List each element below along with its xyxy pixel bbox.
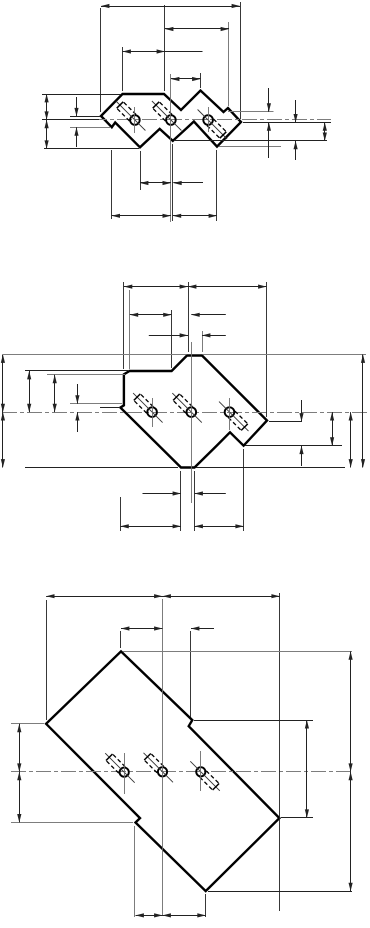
- extension line L left fig3: [11, 723, 44, 725]
- extension line R up fig2: [266, 282, 268, 417]
- extension line bottom tip right fig2: [196, 467, 345, 469]
- extension line tip left fig1: [70, 116, 100, 118]
- hole 3 vertical center line fig3: [200, 751, 202, 791]
- extension line B right fig3: [208, 891, 352, 893]
- extension line flatR down fig2: [194, 471, 196, 531]
- hole 2 fig3: [144, 753, 174, 783]
- hole 2 vertical center line fig2: [191, 342, 193, 503]
- dimension bottom left fig3: [136, 913, 163, 917]
- extension line V down fig2: [243, 449, 245, 531]
- extension line J1a up fig3: [190, 631, 192, 717]
- extension line edge371 left fig2: [25, 370, 128, 372]
- dimension hole2-to-peak fig1: [171, 77, 201, 81]
- extension line diagstart up fig2: [171, 310, 173, 368]
- extension line K right fig1: [175, 140, 327, 142]
- dimension top row1 left fig3: [46, 594, 162, 598]
- dimension top row2 right fig3: [191, 626, 214, 630]
- dimension right col2 upper fig3: [349, 651, 353, 771]
- dimension left lower fig1: [45, 120, 49, 149]
- hole 3 vertical center line fig1: [208, 107, 210, 132]
- dimension bottom left fig2: [120, 524, 181, 528]
- dimension bottom right fig3: [163, 913, 206, 917]
- hole 1 vertical center line fig2: [152, 398, 154, 427]
- dimension bottom right fig2: [195, 524, 244, 528]
- dimension left upper fig1: [45, 94, 49, 120]
- dimension right col4 fig2: [361, 355, 365, 468]
- dimension left col4 fig2: [75, 384, 79, 432]
- extension line R right fig2: [269, 421, 302, 423]
- extension line jog left fig2: [100, 407, 120, 409]
- dimension left col upper fig3: [17, 724, 21, 772]
- dimension top row1 left fig2: [124, 285, 188, 289]
- hole 3 fig3: [190, 761, 220, 791]
- hole 1 vertical center line fig1: [134, 107, 136, 133]
- extension line B up fig1: [122, 47, 124, 91]
- hole 1 fig3: [105, 753, 135, 783]
- extension line flatL down fig2: [180, 471, 182, 531]
- extension line plateau left fig2: [3, 354, 186, 356]
- dimension top row1 right fig3: [163, 594, 280, 598]
- dimension left col lower fig3: [17, 772, 21, 823]
- extension line R up fig3: [279, 593, 281, 911]
- dimension left col1 lower fig2: [1, 412, 5, 467]
- extension line A up fig1: [100, 8, 102, 112]
- hole 3 vertical center line fig2: [229, 398, 231, 430]
- dimension right col2 fig2: [330, 412, 334, 446]
- dimension left col3 fig2: [53, 375, 57, 412]
- hole 2 fig2: [172, 393, 202, 423]
- extension line hole2 vertical fig1: [170, 74, 172, 222]
- extension line plateau right fig2: [203, 354, 366, 356]
- extension line J2b left fig3: [11, 822, 133, 824]
- extension line I right fig1: [219, 146, 281, 148]
- dimension right A fig1: [267, 88, 271, 158]
- hole 1 fig2: [133, 393, 163, 423]
- plate outline fig2: [120, 356, 267, 468]
- hole center line fig2: [2, 412, 369, 414]
- extension line apex up fig3: [120, 631, 122, 648]
- dimension flat small fig2: [143, 491, 226, 495]
- hole 1 fig1: [116, 101, 145, 131]
- extension line apex right fig3: [123, 651, 352, 653]
- extension line J1a right fig3: [194, 720, 313, 722]
- hole 1 vertical center line fig3: [124, 753, 126, 794]
- plate outline fig1: [101, 91, 241, 148]
- extension line chamfer left fig2: [47, 374, 125, 376]
- extension line O down fig1: [111, 150, 113, 219]
- dimension top row2b fig2: [191, 313, 226, 317]
- dimension K small fig1: [173, 181, 203, 185]
- extension line bottomleft down fig2: [120, 497, 122, 531]
- extension line F right fig1: [228, 111, 274, 113]
- extension line M down fig1: [140, 151, 142, 190]
- dimension bottom left fig1: [112, 214, 171, 218]
- dimension M-hole2 fig1: [140, 181, 171, 185]
- dimension right col2 lower fig3: [349, 772, 353, 891]
- dimension plateau fig1: [123, 49, 203, 53]
- dimension hole2-to-G fig1: [165, 27, 229, 31]
- dimension right col1 fig2: [299, 400, 303, 466]
- dimension tip thickness fig1: [74, 97, 78, 147]
- dimension top row2 left fig3: [121, 626, 163, 630]
- dimension bottom right fig1: [173, 214, 217, 218]
- dimension right col1 fig3: [305, 720, 309, 818]
- extension line plateau-right up fig2: [202, 331, 204, 352]
- extension line H right fig1: [243, 122, 331, 124]
- dimension left col1 upper fig2: [1, 355, 5, 413]
- dimension plateau fig2: [149, 333, 226, 337]
- center line solid left segment fig1: [42, 119, 99, 121]
- extension line B down fig3: [205, 894, 207, 917]
- extension line corner2 up fig2: [129, 290, 131, 369]
- extension line L up fig3: [46, 600, 48, 720]
- extension line C up fig1: [164, 5, 166, 91]
- dimension top row1 right fig2: [188, 285, 267, 289]
- extension line plateau-left up fig2: [188, 282, 190, 352]
- extension line corner up fig2: [123, 282, 125, 369]
- plate outline fig3: [46, 651, 279, 891]
- dimension right C fig1: [323, 122, 327, 140]
- hole 3 fig2: [219, 402, 249, 432]
- dimension left col2 fig2: [27, 371, 31, 412]
- dimension right B fig1: [294, 100, 298, 160]
- extension line notch left fig1: [70, 127, 111, 129]
- extension line J2b down fig3: [134, 826, 136, 917]
- extension line R right fig3: [281, 817, 313, 819]
- dimension top row2 fig2: [130, 313, 172, 317]
- extension line bottom left fig1: [44, 148, 139, 150]
- extension line K down fig1: [172, 144, 174, 221]
- hole center line fig3: [11, 771, 352, 773]
- hole 3 fig1: [198, 110, 228, 140]
- hole center line fig1: [42, 119, 331, 121]
- hole 2 fig1: [152, 101, 182, 131]
- extension line V right fig2: [245, 445, 342, 447]
- dimension overall width fig1: [101, 4, 240, 8]
- extension line G up fig1: [228, 22, 230, 106]
- hole 2 vertical center line fig3: [162, 599, 164, 916]
- extension line small left fig2: [70, 403, 122, 405]
- dimension right col3 fig2: [349, 412, 353, 467]
- extension line plateau left fig1: [42, 94, 121, 96]
- extension line H up fig1: [240, 2, 242, 119]
- extension line I down fig1: [216, 150, 218, 221]
- extension line E up fig1: [200, 73, 202, 88]
- extension line bottom tip left fig2: [25, 467, 178, 469]
